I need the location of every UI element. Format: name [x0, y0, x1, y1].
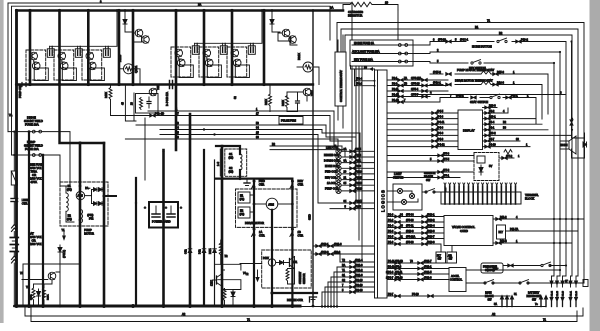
wire chain gap3 — [13, 232, 15, 238]
row P4-2 — [483, 108, 509, 113]
connector row group A (P2-x / CP5-x) — [387, 77, 448, 104]
svg-text:P14-3: P14-3 — [497, 80, 504, 84]
svg-text:P1-5: P1-5 — [388, 235, 394, 238]
svg-text:P1-31: P1-31 — [571, 290, 573, 296]
row P1-6 — [387, 232, 444, 234]
driver box R04 — [62, 68, 76, 81]
svg-text:2A: 2A — [198, 3, 201, 7]
svg-text:(P7-5: (P7-5 — [443, 158, 450, 161]
row P1-4 — [387, 227, 444, 229]
transistor Q1a — [30, 52, 38, 60]
svg-text:(S2): (S2) — [229, 170, 234, 173]
svg-text:P20-2: P20-2 — [489, 132, 496, 135]
row S2 P2-20 — [328, 281, 375, 283]
switch battery restraint — [519, 280, 529, 285]
wire net 3 (outer thin loop) — [8, 3, 352, 132]
svg-text:(P2-16: (P2-16 — [355, 182, 363, 185]
switch pressure — [541, 262, 551, 267]
svg-text:PUMP: PUMP — [84, 228, 92, 232]
wire P2-7 long row — [387, 295, 510, 297]
svg-text:PULSE PWM: PULSE PWM — [281, 120, 296, 123]
svg-text:R1Ω3: R1Ω3 — [118, 54, 122, 62]
svg-text:ARM: ARM — [268, 202, 274, 206]
connector P14-3 — [493, 83, 498, 86]
diode pump pair upper — [94, 188, 103, 192]
wire net B2 — [345, 35, 572, 135]
wire net 2A (inner thin loop) — [12, 6, 331, 155]
wire T30 links — [133, 32, 135, 34]
bus vertical x204 (bank2 cell2) — [203, 11, 206, 85]
wire row 1 — [148, 110, 334, 112]
sub box FLT SW — [436, 252, 446, 263]
module cell Q1 (dashed) — [26, 50, 46, 80]
svg-text:(F1): (F1) — [67, 187, 72, 191]
capacitor C6 module — [248, 43, 255, 54]
svg-text:KEY FUSE 10A: KEY FUSE 10A — [354, 58, 373, 62]
svg-text:P1-30: P1-30 — [576, 290, 578, 296]
wire aux fuse row — [352, 53, 399, 55]
svg-text:SWITCH: SWITCH — [485, 269, 495, 272]
GND vertical x313 — [312, 11, 314, 307]
svg-text:SERVICE: SERVICE — [424, 171, 436, 175]
svg-text:7A: 7A — [404, 77, 407, 80]
svg-text:(P2-6: (P2-6 — [334, 251, 341, 254]
logics bar — [375, 70, 388, 298]
wire R43X — [110, 85, 112, 88]
resistor in M2 — [305, 65, 311, 69]
resistor R36X — [43, 288, 46, 300]
wire chain tail — [13, 252, 15, 257]
svg-text:8A: 8A — [344, 159, 347, 162]
transistor Q4a — [175, 49, 183, 57]
wire aux row to nest — [413, 52, 560, 270]
terminal pin P1-34 — [550, 276, 554, 307]
resistor in M1 — [126, 67, 132, 71]
svg-text:P2-7: P2-7 — [388, 293, 394, 296]
svg-text:B1: B1 — [475, 25, 479, 29]
svg-text:T31X: T31X — [311, 90, 314, 96]
svg-text:(P4-12: (P4-12 — [437, 143, 445, 146]
wire CP2-4 row — [354, 69, 356, 86]
terminal teeth — [445, 186, 516, 204]
diode D35X — [37, 289, 41, 299]
wire light cluster — [387, 190, 397, 192]
svg-text:Q3Ω1: Q3Ω1 — [134, 65, 138, 73]
connector P11-2 — [471, 96, 476, 99]
svg-text:REV: REV — [298, 179, 304, 183]
bus vertical x297 (REV/1B) — [291, 179, 293, 306]
svg-text:(P13-8: (P13-8 — [427, 241, 435, 244]
wire x43 drop — [42, 155, 44, 306]
capacitor C31X — [296, 96, 300, 108]
bus vertical x176 (bank2 cell1) — [175, 11, 178, 151]
wire accel out row — [466, 269, 560, 271]
svg-text:SW: SW — [532, 299, 537, 302]
terminal pin P1-36 — [561, 276, 565, 307]
diode D51X — [58, 245, 62, 255]
wire seat switch row — [448, 97, 468, 99]
svg-text:GND: GND — [308, 214, 312, 220]
wire T51 row y279 — [22, 279, 48, 281]
transistor Q5a — [203, 49, 211, 57]
svg-text:(P21-7: (P21-7 — [424, 260, 432, 263]
svg-text:CP5-4: CP5-4 — [411, 88, 419, 91]
wire drive thermostat row — [430, 84, 443, 86]
wire pressure row — [503, 265, 540, 267]
svg-text:10: 10 — [385, 1, 389, 5]
bus vertical x163.5 (power card) — [162, 150, 165, 306]
transistor Q1b — [32, 62, 40, 70]
resistor R30X — [286, 96, 289, 108]
bus vertical x264 — [263, 11, 266, 85]
svg-text:P1-34: P1-34 — [552, 290, 554, 296]
svg-text:(P13-4: (P13-4 — [427, 224, 435, 227]
bus vertical x204 — [203, 150, 205, 306]
connector P15-3 — [493, 73, 498, 76]
svg-text:72/80 VOLT: 72/80 VOLT — [29, 242, 44, 246]
svg-text:P20-3: P20-3 — [489, 104, 496, 107]
row P1-10 — [387, 98, 448, 103]
row P20-3 — [483, 107, 498, 109]
svg-text:(P2-14: (P2-14 — [355, 171, 363, 174]
svg-text:7A: 7A — [9, 113, 12, 117]
wire chain gap2 — [13, 202, 15, 225]
row P1-15 — [387, 96, 430, 98]
wire row 34 — [160, 129, 322, 131]
svg-text:P1-8: P1-8 — [388, 271, 394, 274]
bottom bus thin continuation — [300, 306, 546, 308]
wire row 15 — [160, 134, 318, 136]
wire rows into coil column — [334, 111, 336, 145]
wire 2-S vertical — [219, 149, 221, 176]
field box E1 (F1) drive — [238, 192, 250, 203]
driver box R03 — [34, 68, 48, 81]
svg-text:REV COIL: REV COIL — [325, 176, 337, 179]
row P4-12 — [387, 146, 458, 148]
current sensor box (dashed) — [262, 250, 312, 288]
zener Z2R1 — [270, 17, 274, 27]
wire row B2b — [270, 149, 345, 151]
wire R31X — [269, 85, 271, 95]
svg-text:5A: 5A — [494, 303, 497, 306]
connector P10-2 — [516, 40, 521, 43]
connector P32-1D — [150, 114, 155, 117]
capacitor C5 module — [220, 43, 227, 54]
svg-text:HORN BUTTON: HORN BUTTON — [472, 45, 492, 49]
svg-text:CARD: CARD — [460, 229, 468, 233]
row P1-3 — [387, 216, 444, 218]
svg-text:A2: A2 — [492, 312, 496, 316]
wire M2 — [297, 66, 303, 68]
transistor T32X — [149, 88, 157, 96]
row P4-5 — [387, 112, 458, 114]
bus vertical x16.5 — [15, 11, 18, 307]
wire T32 links — [278, 33, 289, 41]
svg-text:(F2): (F2) — [67, 217, 72, 221]
driver box R05 — [90, 68, 104, 81]
accel control box — [449, 268, 466, 292]
row P4-9 — [387, 140, 458, 142]
diode sensor — [276, 261, 284, 265]
svg-text:REGEN CTR: REGEN CTR — [287, 298, 303, 302]
resistor R1T1 — [223, 289, 226, 301]
svg-text:A2: A2 — [182, 312, 186, 316]
svg-text:R31X: R31X — [297, 53, 301, 60]
relay end box — [583, 280, 588, 287]
svg-text:(P4-11: (P4-11 — [437, 121, 445, 124]
wire key fuse row — [352, 61, 399, 63]
control thermostat box — [335, 52, 346, 106]
svg-text:(P2-10: (P2-10 — [355, 188, 363, 191]
wire cap rail bank1 — [50, 11, 117, 47]
svg-text:3A1: 3A1 — [293, 261, 298, 264]
bus vertical x59.5 (bank1 cell2) — [58, 11, 61, 85]
svg-text:CTR: CTR — [298, 182, 304, 186]
row P20-2 — [483, 134, 573, 136]
connector P14-1 — [446, 83, 451, 86]
row P4-10 1 — [483, 146, 531, 148]
svg-text:(P21-8: (P21-8 — [355, 264, 363, 267]
svg-text:CONTROL THERMOSTAT: CONTROL THERMOSTAT — [339, 70, 343, 102]
svg-text:FUSE 10A: FUSE 10A — [25, 123, 39, 127]
svg-text:5V: 5V — [489, 164, 492, 168]
svg-text:(P21-5: (P21-5 — [424, 271, 432, 274]
svg-text:MOTOR: MOTOR — [84, 232, 94, 236]
svg-text:(P2-5: (P2-5 — [355, 205, 362, 208]
row P1-9 — [387, 244, 441, 252]
wire sensor internals — [288, 257, 295, 270]
svg-text:7B: 7B — [404, 82, 407, 85]
wire vertical x362 — [361, 66, 363, 262]
svg-text:(P2-9: (P2-9 — [355, 165, 362, 168]
svg-text:(P21-3: (P21-3 — [424, 276, 432, 279]
wire vertical x352 — [351, 66, 353, 160]
wire cap rail bank2 — [195, 11, 262, 44]
svg-text:(P7-2: (P7-2 — [506, 155, 513, 158]
svg-text:P1-9: P1-9 — [388, 241, 394, 244]
svg-text:P11-7A: P11-7A — [510, 228, 518, 231]
terminal tips — [444, 183, 517, 185]
svg-text:R35X: R35X — [31, 294, 33, 300]
svg-text:CTR: CTR — [259, 233, 265, 237]
svg-text:CURRENT: CURRENT — [299, 271, 302, 284]
ammeter M2 — [303, 62, 313, 72]
svg-text:(P2-17: (P2-17 — [355, 200, 363, 203]
wire card to sub boxes — [440, 246, 442, 253]
wire T51 row y264 — [22, 264, 24, 306]
svg-text:1B: 1B — [298, 230, 301, 234]
svg-text:DRIVE MOTOR THERMOSTAT: DRIVE MOTOR THERMOSTAT — [455, 79, 493, 83]
bus vertical x190 — [189, 114, 192, 306]
svg-text:(P7-1: (P7-1 — [443, 174, 450, 177]
svg-text:HORN FUSE 3A: HORN FUSE 3A — [354, 41, 374, 45]
motor armature ARM (drive) — [266, 198, 278, 210]
wire drive shunt field row — [8, 131, 32, 133]
svg-text:(S1): (S1) — [229, 156, 234, 159]
svg-text:P5-19: P5-19 — [412, 293, 419, 296]
wire cluster2 — [287, 92, 298, 97]
svg-text:BLOCK: BLOCK — [525, 197, 534, 201]
svg-text:(P3C-1: (P3C-1 — [460, 37, 469, 41]
wire Q1 internals — [30, 55, 32, 57]
wire P11-2 row — [493, 218, 584, 220]
bus vertical x88.3 (bank1 cell3) — [87, 11, 90, 85]
wire row B2a — [270, 145, 342, 147]
row T2 P21-4 — [340, 261, 375, 263]
switch horn button — [497, 38, 507, 43]
svg-text:(P4-3: (P4-3 — [437, 127, 444, 130]
inductor sensor — [240, 154, 242, 170]
wire horn drop — [571, 42, 573, 139]
capacitor on mid bus — [170, 81, 173, 89]
contactor REGEN CTR row (thick) — [272, 292, 317, 294]
wire cluster T51 — [34, 284, 45, 288]
svg-text:FUSE 10A: FUSE 10A — [25, 147, 39, 151]
chevron contacts upper — [12, 225, 18, 232]
svg-text:SWITCH: SWITCH — [393, 175, 403, 179]
wire pump internal — [66, 182, 70, 193]
row P1-13 — [387, 268, 449, 270]
bus vertical x232 (bank2 cell3) — [231, 11, 234, 85]
svg-text:AUX LIGHT FUSE 15A: AUX LIGHT FUSE 15A — [352, 50, 380, 54]
transistor Q6a — [231, 49, 239, 57]
wire pump thermostat row — [430, 73, 443, 75]
wire net 71 — [337, 23, 584, 271]
svg-text:PA: PA — [342, 264, 345, 267]
svg-text:P2-3: P2-3 — [392, 82, 398, 85]
wire 28 vertical — [133, 93, 135, 121]
transistor 3A1 — [284, 257, 295, 269]
diode C4D on x190 — [188, 249, 192, 253]
diode D4D on x204 — [202, 249, 206, 253]
svg-text:B–P443 17A: B–P443 17A — [166, 92, 169, 106]
wire drive feeder bus — [216, 178, 292, 180]
switch key — [471, 60, 481, 65]
terminal pin P1-31 — [569, 276, 573, 307]
svg-text:CTR: CTR — [298, 233, 304, 237]
svg-text:(P5-34: (P5-34 — [406, 213, 414, 216]
contactor FWD CTR — [252, 180, 256, 189]
svg-text:P1-36: P1-36 — [563, 290, 565, 296]
svg-text:P1-35: P1-35 — [557, 290, 559, 296]
drive motor box (dashed) — [236, 189, 298, 227]
wire net B1 — [341, 29, 578, 270]
svg-text:LIGHT: LIGHT — [394, 172, 402, 176]
terminal block body — [441, 192, 521, 204]
wire cap stubs — [196, 43, 198, 46]
svg-text:D4Ω: D4Ω — [200, 249, 202, 254]
inductor pump field E1 — [66, 193, 68, 211]
wire thin vertical x145 — [144, 118, 146, 180]
fuse box outline — [397, 10, 399, 40]
wire sensor feeder (thick) — [216, 146, 240, 154]
mid bus dots — [15, 83, 18, 86]
svg-text:7Ω: 7Ω — [225, 256, 228, 258]
svg-text:1A: 1A — [259, 230, 262, 234]
svg-text:(P4-5: (P4-5 — [437, 110, 444, 113]
regulator box — [477, 156, 485, 163]
transistor Q3b — [88, 62, 96, 70]
svg-text:P4-2: P4-2 — [489, 110, 495, 113]
bus elbow x59.5 to x104 — [60, 85, 105, 144]
valve control card box — [444, 216, 493, 246]
bus vertical x252 (FWD) — [253, 179, 255, 306]
row 7 P2-19 — [325, 286, 375, 288]
diode D3T1 on x214.5 — [213, 249, 217, 253]
wire x29 drop — [28, 132, 30, 306]
svg-text:POWER CARD: POWER CARD — [152, 220, 171, 224]
svg-text:(P21-1: (P21-1 — [424, 265, 432, 268]
display right rows — [483, 104, 573, 148]
svg-text:(P13-1: (P13-1 — [427, 213, 435, 216]
svg-text:+: + — [180, 206, 182, 210]
svg-text:(P7-3: (P7-3 — [443, 152, 450, 155]
diode D1T1 — [231, 290, 235, 300]
bottom bus dots — [15, 304, 19, 308]
wire vertical x214.5 — [214, 160, 216, 306]
svg-text:P4-7: P4-7 — [489, 138, 495, 141]
small pin group B — [539, 296, 547, 307]
svg-text:(P2-20: (P2-20 — [355, 279, 363, 282]
svg-text:1T1X: 1T1X — [211, 280, 214, 286]
svg-text:(P5-36: (P5-36 — [406, 219, 414, 222]
row T1 P21-2 — [334, 271, 375, 273]
svg-text:(P5-29: (P5-29 — [438, 37, 446, 41]
box PULSE PWM — [279, 117, 303, 125]
capacitor C2 module — [75, 46, 82, 57]
transistor Q4b — [177, 59, 185, 67]
svg-text:CP5-7: CP5-7 — [411, 93, 419, 96]
svg-text:P11-1: P11-1 — [511, 93, 518, 97]
svg-text:(P5-10: (P5-10 — [395, 276, 403, 279]
diode hour meter — [479, 165, 483, 175]
wire cluster 1T1 — [222, 270, 225, 274]
switch main brake — [484, 280, 494, 285]
switch light 3 — [401, 199, 406, 204]
transistor T31X mid — [303, 88, 311, 96]
scan margin left — [0, 0, 4, 323]
svg-text:R30X: R30X — [282, 100, 285, 106]
terminal pin P1-35 — [556, 276, 560, 307]
wire Q5 internals — [203, 52, 205, 54]
transistor Q5b — [205, 59, 213, 67]
wire return A2 — [25, 306, 583, 316]
capacitor C30X — [147, 97, 151, 108]
power card box — [149, 202, 178, 228]
row P20-1 — [483, 118, 537, 120]
svg-text:P1-10: P1-10 — [392, 99, 399, 102]
svg-text:(P4-8: (P4-8 — [437, 115, 444, 118]
svg-text:(P2-30: (P2-30 — [355, 289, 363, 292]
svg-text:P1-15: P1-15 — [392, 93, 399, 96]
svg-text:P4-4: P4-4 — [489, 121, 495, 124]
svg-text:R36X: R36X — [48, 294, 50, 300]
wire zener2 — [271, 11, 273, 18]
top bus B+ (thick) — [17, 11, 344, 307]
svg-text:P10-2: P10-2 — [521, 37, 528, 41]
svg-text:71: 71 — [487, 19, 490, 23]
svg-text:E1: E1 — [240, 194, 244, 198]
bus vertical x30 — [29, 11, 32, 85]
wire CP2-2 row — [355, 85, 375, 87]
bus vertical x119 — [118, 11, 121, 85]
wire row 77 — [148, 115, 330, 117]
svg-text:P32–1D: P32–1D — [155, 112, 164, 115]
field box E2 (F2) drive — [238, 207, 250, 218]
contactor LINE CTR — [11, 199, 18, 202]
connector row group B (display left feeds) — [387, 110, 458, 148]
row P2-11 — [387, 90, 448, 92]
